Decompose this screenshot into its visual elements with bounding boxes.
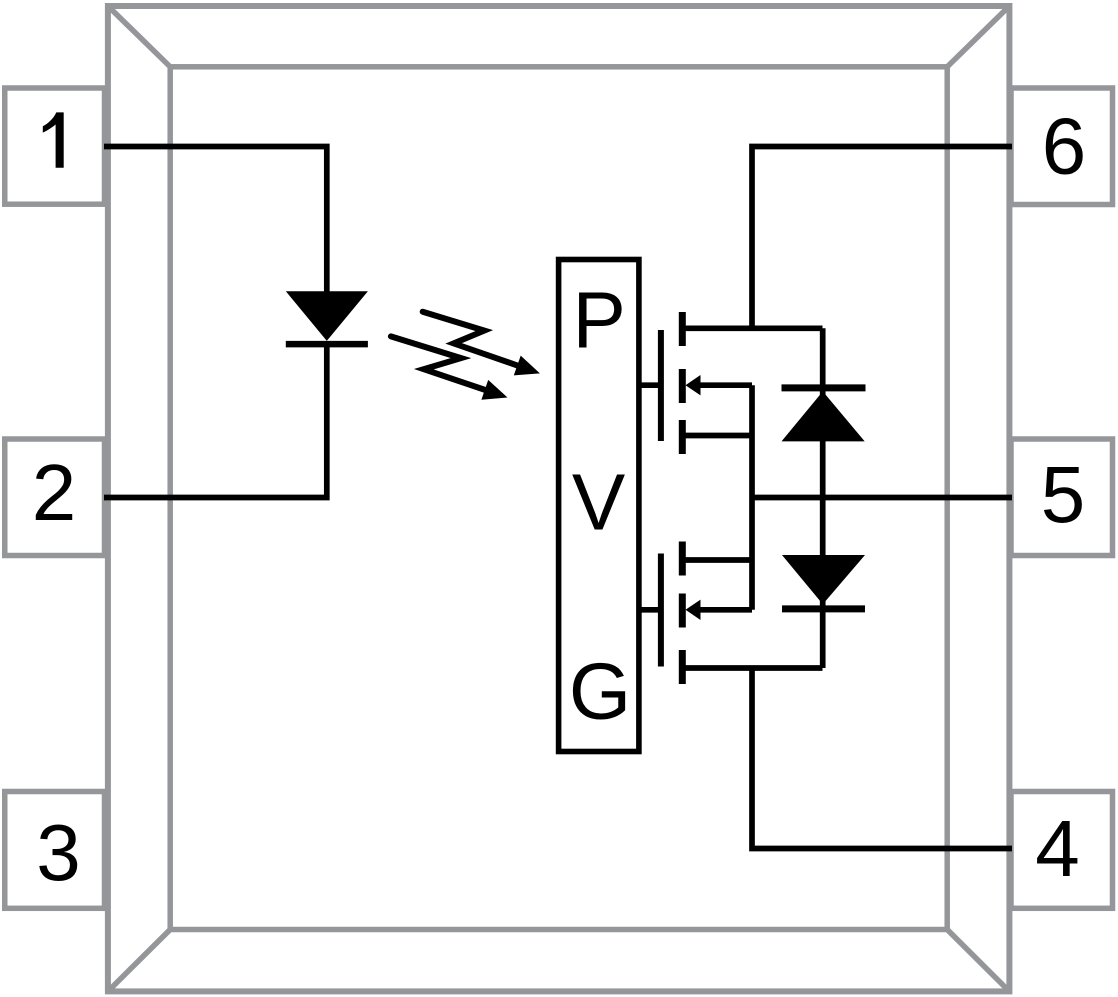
photovoltaic generator PVG box [559,260,639,752]
body diode D3 cathode bar [782,605,865,612]
LED D1 cathode bar [286,341,368,348]
package outline outer frame [108,6,1010,991]
mosfet Q1 gate line [658,330,664,441]
pin 1 box [5,88,105,204]
wire Q1 body/source to node5 [749,385,755,497]
pin 1 label [43,112,64,167]
package outline inner frame [170,67,947,930]
mosfet Q2 gate line [658,554,664,667]
wire LED cathode to pin2 [104,341,327,498]
mosfet Q1 gate stub [642,382,659,388]
body diode D3 triangle [782,555,865,604]
LED D1 triangle [286,291,368,341]
svg-text:P: P [573,276,626,365]
mosfet Q2 drain stub [682,665,823,671]
wire body diode rail [820,328,826,668]
mosfet Q2 channel segments [679,542,686,685]
mosfet Q1 drain stub [682,325,823,331]
wire pin1 to LED anode [104,147,327,295]
wire Q2 drain to pin4 [752,668,1012,849]
mosfet Q2 body stub [697,607,752,613]
svg-text:V: V [572,458,626,547]
mosfet Q2 gate stub [642,607,659,613]
pin 3 box [5,792,105,909]
svg-text:4: 4 [1035,804,1080,893]
bevel diagonal top-left [108,6,170,67]
svg-text:3: 3 [36,808,81,897]
pin 2 box [5,439,105,556]
mosfet Q1 body arrow [686,375,701,395]
bevel diagonal bottom-left [108,930,170,992]
mosfet Q1 source stub [682,433,752,439]
pin 6 box [1011,88,1113,205]
light arrow lower head [481,380,507,400]
wire pin6 to Q1 drain [752,147,1012,329]
svg-text:G: G [569,647,631,736]
bevel diagonal top-right [947,6,1009,67]
mosfet Q2 body arrow [686,600,701,620]
mosfet Q1 channel segments [679,312,686,454]
bevel diagonal bottom-right [947,930,1009,992]
light arrow upper [423,312,520,367]
mosfet Q1 body stub [697,382,752,388]
wire node5 to Q2 body/source [749,498,755,610]
svg-text:5: 5 [1041,450,1086,539]
pin 4 box [1011,792,1113,909]
pin 5 box [1011,439,1113,556]
mosfet Q2 source stub [682,557,752,563]
body diode D2 cathode bar [782,384,866,391]
svg-text:6: 6 [1042,102,1087,191]
svg-text:2: 2 [32,448,77,537]
light arrow lower [391,336,488,391]
body diode D2 triangle [782,391,865,441]
light arrow upper head [514,356,540,376]
wire node5 to pin5 [752,495,1012,501]
